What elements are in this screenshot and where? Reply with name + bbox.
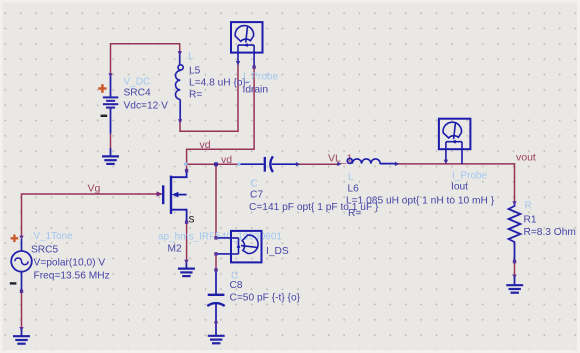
svg-text:ap_hms_IRF540_19930601: ap_hms_IRF540_19930601	[158, 232, 282, 243]
svg-text:I_DS: I_DS	[266, 246, 289, 257]
svg-text:L6: L6	[348, 184, 360, 195]
pin arrow Idrain left stub	[236, 61, 240, 66]
svg-text:R=: R=	[189, 90, 202, 101]
wire vd down to I_DS probe	[215, 164, 217, 238]
wire SRC5 bottom to ground	[21, 291, 23, 329]
svg-text:R: R	[525, 201, 532, 212]
ground below SRC5	[13, 336, 30, 344]
svg-text:vd: vd	[221, 154, 232, 166]
svg-text:C8: C8	[230, 280, 243, 291]
wire battery bottom	[110, 134, 112, 148]
pin arrow R1 top	[512, 201, 516, 205]
svg-text:Idrain: Idrain	[243, 85, 268, 96]
wire I_DS to C8	[215, 254, 217, 270]
plus sign of SRC4	[98, 84, 106, 92]
pin arrow above SRC5 ground	[19, 327, 23, 331]
svg-text:R=: R=	[348, 208, 361, 219]
svg-text:s: s	[189, 212, 195, 226]
pin marker I_DS top	[214, 236, 217, 239]
svg-text:C=50 pF {-t} {o}: C=50 pF {-t} {o}	[230, 293, 301, 304]
Idrain probe pin stubs	[238, 53, 254, 67]
pin marker mosfet source	[185, 221, 188, 224]
pin arrow Iout left stub	[444, 160, 448, 165]
wire Vg: source to gate	[22, 194, 159, 237]
svg-text:.V_1Tone: .V_1Tone	[31, 231, 74, 242]
svg-text:M2: M2	[168, 244, 182, 255]
wire mosfet source to ground	[186, 222, 188, 262]
current probe Iout (meter right)	[439, 119, 471, 150]
pin marker Idrain right stub	[252, 65, 255, 68]
inductor L5	[175, 51, 183, 122]
svg-text:V=polar(10,0) V: V=polar(10,0) V	[34, 258, 106, 269]
svg-text:Freq=13.56 MHz: Freq=13.56 MHz	[34, 271, 110, 282]
wire battery top to L5 top	[111, 44, 180, 75]
pin marker battery top	[108, 73, 112, 77]
svg-text:vd: vd	[200, 139, 211, 151]
resistor R1	[509, 202, 521, 261]
inductor L6	[347, 158, 396, 163]
pin marker SRC5 top	[19, 236, 23, 240]
svg-text:vout: vout	[516, 152, 536, 164]
svg-text:L5: L5	[189, 66, 201, 77]
svg-text:.L: .L	[186, 51, 195, 62]
op current probe Idrain (meter U top)	[231, 22, 263, 53]
capacitor C8	[207, 270, 224, 332]
Iout probe pin stubs	[446, 149, 462, 164]
wire C7 right to L6 left	[297, 163, 339, 165]
battery V_DC SRC4	[103, 75, 118, 134]
plus sign of SRC5	[11, 235, 19, 243]
svg-text:Vdc=12 V: Vdc=12 V	[124, 101, 169, 112]
wire Idrain probe pin2 to drain node vd	[187, 66, 255, 164]
pin marker L5 bottom	[178, 119, 182, 123]
ground below R1	[506, 285, 523, 293]
mosfet body arrow	[172, 192, 179, 198]
minus sign of SRC5	[10, 282, 17, 284]
svg-text:Vg: Vg	[88, 183, 101, 195]
svg-text:I_Probe: I_Probe	[452, 171, 487, 182]
wire L6 right to Iout probe and vout corner	[397, 164, 515, 202]
pin marker R1 bottom	[513, 260, 516, 263]
svg-text:I_Probe: I_Probe	[243, 72, 278, 83]
minus sign of SRC4	[101, 115, 108, 117]
pin arrow L5 top	[178, 51, 182, 55]
svg-text:Iout: Iout	[451, 182, 468, 193]
pin arrow C8 bottom	[214, 322, 218, 326]
svg-text:R=8.3 Ohm: R=8.3 Ohm	[524, 227, 576, 238]
pin arrow above M2 ground	[184, 260, 188, 264]
svg-text:L: L	[348, 172, 354, 183]
ground below SRC4	[102, 156, 119, 164]
wire drain node vd horizontal	[187, 163, 239, 165]
pin arrow L6 left	[337, 162, 341, 166]
pin arrow above R1 ground	[512, 275, 516, 279]
pin marker mosfet drain	[185, 169, 188, 172]
wire mosfet drain stub	[186, 164, 188, 171]
svg-text:V_DC: V_DC	[124, 77, 151, 88]
pin arrow C7 right	[296, 162, 300, 166]
svg-text:L=1.085 uH opt{ 1 nH to 10 mH: L=1.085 uH opt{ 1 nH to 10 mH }	[346, 196, 495, 207]
transistor M2 (MOSFET)	[159, 172, 187, 223]
gate wire arrowhead	[157, 191, 163, 196]
current probe I_DS (rotated meter)	[231, 231, 262, 262]
wire L5 bottom to Idrain probe pin1	[180, 64, 238, 131]
I_DS probe pin stubs	[216, 238, 231, 254]
pin marker C8 top	[214, 268, 217, 271]
source V_1Tone SRC5	[11, 239, 32, 291]
node junction dot at vd	[214, 162, 218, 166]
ground below C8	[208, 336, 225, 344]
ground below M2 source	[178, 269, 195, 277]
pin marker SRC5 bottom	[20, 290, 23, 293]
wire R1 bottom to ground	[514, 261, 516, 277]
pin square at C7 pin1	[237, 163, 240, 166]
pin marker I_DS bottom	[214, 252, 217, 255]
pin arrow L6 right	[395, 162, 399, 166]
svg-text:R1: R1	[524, 215, 537, 226]
capacitor C7	[241, 156, 298, 172]
svg-text:SRC5: SRC5	[31, 245, 59, 256]
svg-text:C7: C7	[250, 190, 263, 201]
svg-text:SRC4: SRC4	[124, 88, 152, 99]
svg-text:L=4.8 uH {o}-: L=4.8 uH {o}-	[189, 78, 249, 89]
svg-text:C: C	[251, 179, 258, 190]
pin square left end of vd wire	[184, 163, 187, 166]
